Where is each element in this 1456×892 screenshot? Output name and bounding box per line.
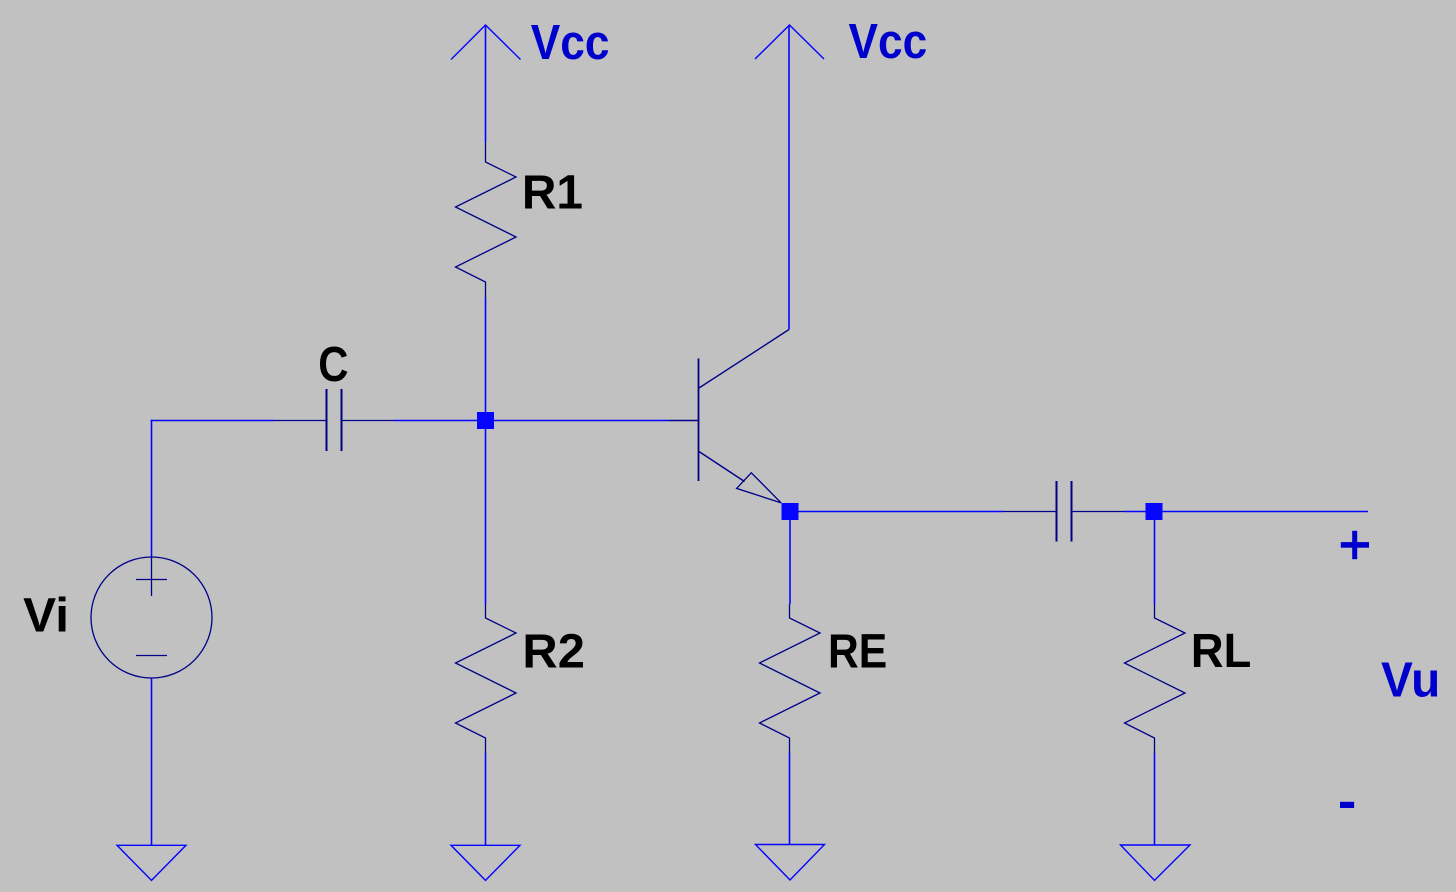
label R1 — [522, 166, 583, 219]
power symbol Vcc (right arrow) — [755, 25, 824, 59]
capacitor C — [274, 389, 394, 451]
svg-text:Vu: Vu — [1381, 653, 1440, 708]
wire node B to transistor base — [486, 420, 669, 422]
power symbol Vcc (left arrow) — [451, 25, 521, 60]
ground (RE) — [756, 845, 825, 881]
capacitor (output coupling) — [1003, 481, 1124, 542]
ground (Vi) — [117, 845, 186, 880]
wire node O to RL — [1154, 512, 1156, 605]
net label Vcc (right) — [849, 14, 928, 69]
svg-text:R2: R2 — [522, 625, 585, 678]
wire node E to output capacitor — [790, 511, 1003, 513]
wire R1 bottom to node B — [485, 298, 487, 421]
svg-text:Vi: Vi — [23, 589, 69, 642]
svg-text:RE: RE — [828, 624, 887, 678]
output polarity minus — [1340, 802, 1354, 808]
wire node E to RE — [789, 512, 791, 605]
resistor RE — [760, 604, 821, 753]
resistor R1 — [456, 142, 517, 298]
wire RL to ground — [1154, 753, 1156, 845]
output polarity plus — [1341, 531, 1369, 559]
ground (R2) — [451, 845, 520, 880]
wire R2 to ground — [485, 753, 487, 845]
node O (output junction square) — [1146, 503, 1163, 520]
net label Vcc (left) — [531, 15, 610, 70]
label RE — [828, 624, 887, 678]
wire output capacitor to node O — [1124, 511, 1154, 513]
resistor RL — [1125, 604, 1186, 753]
svg-text:Vcc: Vcc — [531, 15, 610, 70]
wire Vi vertical riser — [151, 420, 153, 557]
node E (emitter junction square) — [782, 503, 799, 520]
wire node O to output terminal — [1154, 511, 1368, 513]
wire Vi bottom to ground — [151, 678, 153, 845]
wire RE to ground — [789, 753, 791, 845]
wire node B to R2 — [485, 421, 487, 605]
wire Vcc1 stem to R1 — [485, 25, 487, 142]
label R2 — [522, 625, 585, 678]
label Vu — [1381, 653, 1440, 708]
svg-text:C: C — [318, 337, 348, 392]
transistor Q1 (NPN) — [669, 330, 789, 503]
label RL — [1191, 624, 1251, 677]
svg-text:Vcc: Vcc — [849, 14, 928, 69]
svg-text:RL: RL — [1191, 624, 1251, 677]
resistor R2 — [456, 604, 517, 753]
svg-text:R1: R1 — [522, 166, 583, 219]
ground (RL) — [1121, 845, 1191, 880]
voltage source Vi — [91, 557, 212, 678]
label C — [318, 337, 348, 392]
wire Vi top horizontal to capacitor C — [151, 420, 274, 422]
node B (junction square) — [477, 412, 494, 429]
label Vi — [23, 589, 69, 642]
wire capacitor C to node B — [394, 420, 486, 422]
wire collector to Vcc2 — [788, 25, 790, 330]
